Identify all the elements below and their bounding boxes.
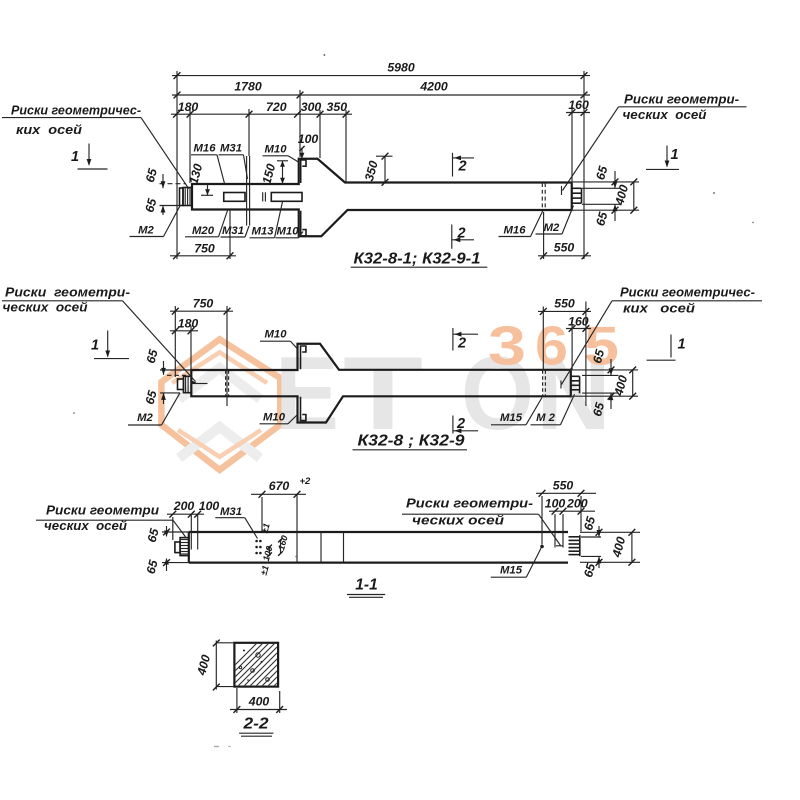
svg-text:670: 670 <box>269 479 290 493</box>
svg-text:ческих осей: ческих осей <box>412 513 504 528</box>
svg-text:ких осей: ких осей <box>16 122 82 137</box>
svg-text:М2: М2 <box>138 225 154 237</box>
svg-text:М13: М13 <box>252 226 275 238</box>
svg-text:1780: 1780 <box>234 80 262 94</box>
svg-text:ческих осей: ческих осей <box>623 107 707 122</box>
svg-text:М 2: М 2 <box>536 412 556 424</box>
svg-text:М31: М31 <box>220 506 242 518</box>
svg-text:К32-8-1; К32-9-1: К32-8-1; К32-9-1 <box>354 251 481 268</box>
svg-text:350: 350 <box>327 100 348 114</box>
svg-text:ческих осей: ческих осей <box>44 518 127 533</box>
svg-text:М10: М10 <box>263 412 286 424</box>
svg-text:400: 400 <box>248 694 270 708</box>
svg-text:180: 180 <box>178 316 199 330</box>
svg-text:Риски геометричес-: Риски геометричес- <box>11 103 141 118</box>
svg-text:М16: М16 <box>504 225 527 237</box>
svg-text:ческих осей: ческих осей <box>3 300 88 315</box>
svg-text:М15: М15 <box>500 565 523 577</box>
svg-text:100: 100 <box>298 132 319 146</box>
svg-text:2: 2 <box>457 158 466 174</box>
svg-text:1: 1 <box>677 337 685 353</box>
svg-text:Риски геометри-: Риски геометри- <box>406 495 533 510</box>
svg-text:+2: +2 <box>300 476 312 487</box>
svg-text:180: 180 <box>178 100 199 114</box>
svg-text:200: 200 <box>173 499 195 513</box>
svg-text:М31: М31 <box>220 143 242 155</box>
svg-text:5980: 5980 <box>387 61 415 75</box>
svg-text:1: 1 <box>91 338 99 354</box>
svg-text:4200: 4200 <box>419 80 448 94</box>
svg-text:550: 550 <box>554 297 575 311</box>
svg-text:2: 2 <box>456 416 465 432</box>
svg-text:Риски геометри: Риски геометри <box>46 502 159 517</box>
svg-text:М15: М15 <box>500 412 523 424</box>
svg-text:2: 2 <box>456 225 465 241</box>
svg-text:М16: М16 <box>194 143 217 155</box>
svg-text:1-1: 1-1 <box>355 576 377 593</box>
svg-text:М10: М10 <box>277 226 300 238</box>
svg-text:E: E <box>275 336 339 452</box>
svg-text:720: 720 <box>266 100 287 114</box>
svg-text:М20: М20 <box>192 225 215 237</box>
svg-text:100: 100 <box>199 499 220 513</box>
svg-text:750: 750 <box>194 242 215 256</box>
svg-text:Риски геометри-: Риски геометри- <box>624 92 739 107</box>
svg-text:М31: М31 <box>222 225 244 237</box>
svg-text:550: 550 <box>553 478 574 492</box>
svg-text:100: 100 <box>545 496 566 510</box>
svg-text:2-2: 2-2 <box>242 716 269 733</box>
svg-text:Риски геометри-: Риски геометри- <box>5 285 130 300</box>
svg-text:750: 750 <box>193 296 214 310</box>
svg-text:2: 2 <box>457 336 466 352</box>
svg-text:300: 300 <box>301 100 322 114</box>
svg-text:М2: М2 <box>137 412 153 424</box>
svg-text:К32-8 ; К32-9: К32-8 ; К32-9 <box>358 433 465 450</box>
svg-text:ких осей: ких осей <box>623 301 695 316</box>
svg-text:550: 550 <box>554 240 575 254</box>
svg-text:Риски геометричес-: Риски геометричес- <box>620 285 755 300</box>
svg-text:М10: М10 <box>265 329 288 341</box>
svg-text:365: 365 <box>488 315 619 377</box>
svg-text:1: 1 <box>670 147 678 163</box>
svg-text:200: 200 <box>566 496 588 510</box>
svg-text:М10: М10 <box>265 144 288 156</box>
svg-text:1: 1 <box>71 149 79 165</box>
svg-text:М2: М2 <box>544 222 560 234</box>
